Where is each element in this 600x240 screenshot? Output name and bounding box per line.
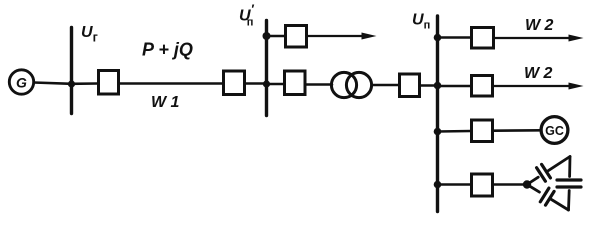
breaker 5 — [400, 74, 420, 97]
junction on bus U'p (local load feeder) — [263, 32, 271, 40]
svg-text:Uг: Uг — [81, 24, 98, 45]
capacitor bank right side wire — [568, 157, 571, 177]
breaker 1 — [99, 71, 119, 95]
synchronous compensator GC — [541, 117, 568, 144]
wire: bus Up to breaker 9 — [438, 183, 472, 186]
wire: bus Up to breaker 8 — [438, 130, 472, 133]
svg-text:W 2: W 2 — [525, 17, 554, 34]
wire: transformer to breaker 5 — [372, 84, 399, 87]
svg-text:G: G — [16, 75, 27, 91]
capacitor C2 (right side) — [557, 178, 581, 181]
wire: breaker 8 to synchronous compensator — [494, 129, 542, 132]
svg-text:GC: GC — [545, 124, 564, 138]
junction feeder 3 — [434, 128, 442, 136]
line W2 arrow (feeder 2) — [494, 85, 570, 87]
wire: bus Up to breaker 6 — [438, 36, 472, 39]
junction feeder 1 — [434, 34, 442, 42]
wire: breaker 2 to bus U'p — [246, 82, 267, 85]
transformer T winding 1 — [331, 72, 356, 97]
wire: breaker 5 to bus Up — [421, 84, 438, 87]
breaker 4 — [285, 71, 306, 95]
svg-text:P + jQ: P + jQ — [142, 40, 193, 60]
capacitor C1 (upper branch) — [537, 168, 546, 182]
breaker 9 — [472, 174, 493, 196]
line W1: breaker 1 to breaker 2 — [120, 82, 223, 85]
junction on bus Ug — [68, 80, 75, 87]
wire: bus Up to breaker 7 — [438, 85, 472, 88]
node: capacitor bank apex — [523, 180, 531, 188]
line W2 arrow (feeder 1) — [495, 37, 570, 39]
svg-text:W 1: W 1 — [151, 94, 180, 111]
wire: bus Ug to breaker 1 — [72, 82, 98, 85]
bus Ug — [70, 28, 73, 114]
wire: generator to bus Ug — [34, 83, 72, 84]
breaker 8 — [472, 120, 493, 142]
wire: breaker 4 to transformer — [306, 83, 332, 86]
local load arrow — [308, 35, 364, 37]
bus Up — [436, 16, 439, 212]
junction feeder 2 — [434, 82, 442, 90]
generator G — [9, 70, 33, 94]
capacitor bank upper branch wire — [527, 177, 538, 184]
breaker 6 — [472, 28, 494, 49]
svg-text:W 2: W 2 — [524, 65, 553, 82]
junction on bus U'p (main line) — [263, 80, 270, 87]
svg-text:Uп: Uп — [412, 12, 430, 32]
capacitor C3 (lower branch) — [540, 188, 549, 202]
svg-text:U′п: U′п — [239, 2, 255, 29]
breaker 2 — [224, 71, 245, 95]
bus U'p — [265, 21, 268, 116]
wire: bus U'p to breaker 4 — [267, 83, 285, 86]
wire: bus U'p to breaker 3 — [267, 35, 286, 38]
breaker 3 (local load feeder) — [286, 26, 307, 48]
junction feeder 4 — [434, 181, 442, 189]
capacitor bank lower branch wire — [527, 185, 539, 193]
wire: breaker 9 to capacitor bank — [494, 183, 528, 186]
transformer T winding 2 — [346, 72, 371, 97]
breaker 7 — [472, 76, 493, 97]
